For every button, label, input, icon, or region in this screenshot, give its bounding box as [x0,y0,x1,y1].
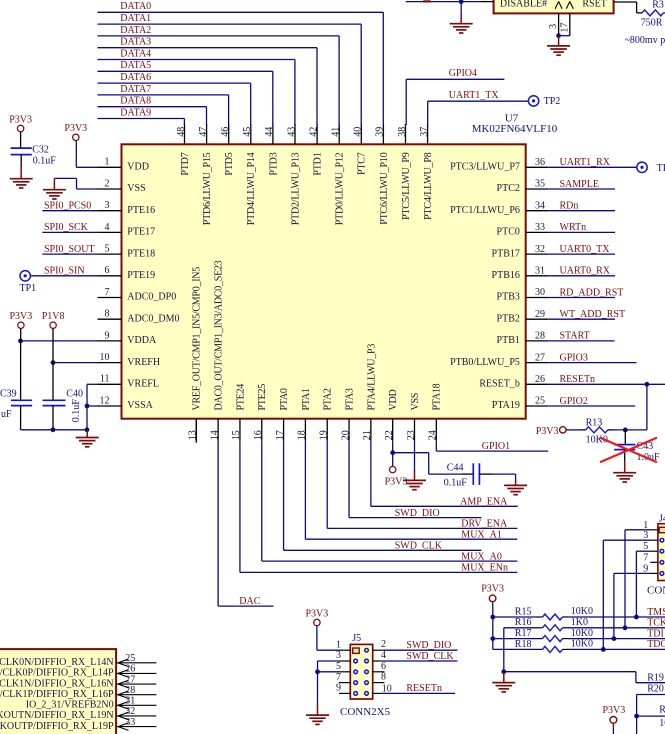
svg-text:43: 43 [286,127,297,137]
svg-text:VSS: VSS [410,393,421,411]
svg-text:GPIO1: GPIO1 [482,441,510,452]
svg-text:PTE24: PTE24 [235,384,246,411]
svg-text:DATA8: DATA8 [120,96,151,107]
svg-text:PTD3: PTD3 [268,152,279,175]
svg-text:9: 9 [105,330,110,341]
svg-text:MUX_A0: MUX_A0 [461,551,502,562]
svg-text:0.1uF: 0.1uF [71,399,82,423]
svg-text:AMP_ENA: AMP_ENA [460,497,508,508]
svg-text:PTA19: PTA19 [492,400,520,411]
svg-text:26: 26 [535,374,545,385]
svg-text:10K0: 10K0 [571,639,593,650]
svg-text:VDD: VDD [127,162,149,173]
svg-text:ADC0_DP0: ADC0_DP0 [127,292,176,303]
svg-text:7: 7 [105,287,110,298]
svg-text:P3V3: P3V3 [306,608,329,619]
svg-text:IO_2_31/VREFB2N0: IO_2_31/VREFB2N0 [26,700,114,711]
svg-text:TP3: TP3 [657,163,665,174]
svg-text:8: 8 [381,672,386,683]
svg-text:PTE19: PTE19 [127,270,155,281]
svg-text:31: 31 [125,696,135,707]
svg-text:SWD_CLK: SWD_CLK [406,651,454,662]
svg-text:PTA0: PTA0 [279,388,290,410]
svg-text:PTC7: PTC7 [357,152,368,175]
svg-text:R15: R15 [515,606,532,617]
svg-text:PTD6/LLWU_P15: PTD6/LLWU_P15 [202,152,213,225]
svg-text:/CLK0P/DIFFIO_RX_L14P: /CLK0P/DIFFIO_RX_L14P [0,668,114,679]
svg-text:0.1uF: 0.1uF [33,155,57,166]
svg-text:24: 24 [428,430,439,440]
svg-text:P3V3: P3V3 [9,114,32,125]
svg-text:PTC4/LLWU_P8: PTC4/LLWU_P8 [423,152,434,220]
svg-text:VREFL: VREFL [127,379,159,390]
svg-text:P3V3: P3V3 [64,123,87,134]
svg-text:PTD2/LLWU_P13: PTD2/LLWU_P13 [290,152,301,225]
svg-text:PTD5: PTD5 [224,152,235,175]
svg-text:UART1_RX: UART1_RX [560,157,611,168]
svg-text:2: 2 [381,639,386,650]
svg-text:28: 28 [535,331,545,342]
svg-text:uF: uF [1,409,12,420]
svg-text:33: 33 [535,222,545,233]
svg-text:11: 11 [100,374,110,385]
svg-text:PTE18: PTE18 [127,248,155,259]
svg-text:14: 14 [209,430,220,440]
svg-text:36: 36 [535,157,545,168]
svg-text:SPI0_SOUT: SPI0_SOUT [44,244,95,255]
svg-text:DATA1: DATA1 [120,13,151,24]
svg-text:1: 1 [105,157,110,168]
svg-text:/CLK1N/DIFFIO_RX_L16N: /CLK1N/DIFFIO_RX_L16N [0,678,114,689]
svg-text:PTB1: PTB1 [497,335,520,346]
svg-text:J5: J5 [352,633,361,644]
svg-text:CONN2X5: CONN2X5 [340,706,391,718]
svg-text:25: 25 [535,396,545,407]
svg-text:/CLK1P/DIFFIO_RX_L16P: /CLK1P/DIFFIO_RX_L16P [0,689,114,700]
svg-text:32: 32 [535,244,545,255]
svg-text:13: 13 [188,430,199,440]
svg-text:5: 5 [105,244,110,255]
svg-text:45: 45 [242,127,253,137]
svg-text:SPI0_PCS0: SPI0_PCS0 [44,201,91,212]
svg-text:16: 16 [253,430,264,440]
svg-text:WRTn: WRTn [560,222,587,233]
svg-text:4: 4 [381,650,386,661]
svg-text:PTA3: PTA3 [344,388,355,410]
svg-text:9: 9 [336,683,341,694]
svg-text:DATA4: DATA4 [120,48,151,59]
svg-text:UART0_RX: UART0_RX [560,266,611,277]
svg-text:RSET: RSET [582,0,606,9]
svg-text:TCK: TCK [647,618,665,629]
svg-text:1: 1 [336,639,341,650]
svg-text:C40: C40 [66,389,83,400]
svg-text:10K0: 10K0 [571,628,593,639]
svg-text:1K0: 1K0 [571,617,588,628]
svg-text:42: 42 [308,127,319,137]
svg-text:VDD: VDD [388,390,399,411]
svg-text:38: 38 [397,127,408,137]
svg-text:RESETn: RESETn [560,374,596,385]
svg-text:MK02FN64VLF10: MK02FN64VLF10 [472,123,558,135]
svg-text:27: 27 [535,352,545,363]
svg-text:PTC2: PTC2 [497,183,520,194]
svg-text:R3: R3 [652,0,664,10]
svg-text:TP2: TP2 [544,96,561,107]
svg-text:KOUTN/DIFFIO_RX_L19N: KOUTN/DIFFIO_RX_L19N [0,710,114,721]
svg-text:DATA9: DATA9 [120,107,151,118]
svg-text:R17: R17 [515,628,532,639]
svg-text:PTD0/LLWU_P12: PTD0/LLWU_P12 [335,152,346,225]
svg-text:10K0: 10K0 [571,606,593,617]
svg-text:34: 34 [535,200,545,211]
svg-text:UART1_TX: UART1_TX [449,90,500,101]
svg-text:46: 46 [220,127,231,137]
svg-text:R16: R16 [515,617,532,628]
svg-text:17: 17 [275,430,286,440]
svg-text:18: 18 [297,430,308,440]
svg-text:P3V3: P3V3 [385,476,408,487]
svg-text:PTB0/LLWU_P5: PTB0/LLWU_P5 [450,357,520,368]
svg-text:23: 23 [406,430,417,440]
svg-text:25: 25 [125,653,135,664]
svg-text:DAC0_OUT/CMP1_IN3/ADC0_SE23: DAC0_OUT/CMP1_IN3/ADC0_SE23 [214,260,225,410]
svg-text:PTD7: PTD7 [180,152,191,175]
svg-text:12: 12 [100,395,110,406]
svg-text:DATA0: DATA0 [120,1,151,12]
svg-text:PTA4/LLWU_P3: PTA4/LLWU_P3 [366,344,377,411]
svg-text:20: 20 [340,430,351,440]
svg-text:PTC0: PTC0 [497,227,520,238]
svg-text:32: 32 [125,706,135,717]
svg-text:17: 17 [560,23,571,33]
svg-text:44: 44 [264,127,275,137]
svg-text:7: 7 [336,672,341,683]
svg-text:~800mv pp: ~800mv pp [625,35,665,46]
svg-text:DRV_ENA: DRV_ENA [461,519,508,530]
svg-text:PTE16: PTE16 [127,205,155,216]
svg-text:0.1uF: 0.1uF [444,478,468,489]
svg-text:PTC3/LLWU_P7: PTC3/LLWU_P7 [450,162,520,173]
svg-text:41: 41 [331,127,342,137]
svg-text:P3V3: P3V3 [481,583,504,594]
svg-text:15: 15 [231,430,242,440]
svg-text:DATA3: DATA3 [120,37,151,48]
svg-text:22: 22 [384,430,395,440]
svg-text:R13: R13 [586,417,603,428]
svg-text:P3V3: P3V3 [603,705,626,716]
svg-text:SWD_DIO: SWD_DIO [406,640,451,651]
svg-text:PTD1: PTD1 [313,152,324,175]
svg-text:PTE25: PTE25 [257,384,268,411]
svg-text:MUX_A1: MUX_A1 [461,530,502,541]
svg-text:7: 7 [643,552,648,563]
svg-text:3: 3 [548,24,559,29]
svg-text:27: 27 [125,674,135,685]
svg-text:DATA2: DATA2 [120,25,151,36]
svg-text:6: 6 [381,661,386,672]
svg-text:TP1: TP1 [20,283,37,294]
svg-text:SWD_DIO: SWD_DIO [395,508,440,519]
svg-text:CONN2: CONN2 [647,584,665,596]
svg-text:PTB2: PTB2 [497,313,520,324]
svg-text:SPI0_SIN: SPI0_SIN [44,266,85,277]
svg-text:R19: R19 [647,673,664,684]
svg-text:35: 35 [535,179,545,190]
svg-text:31: 31 [535,266,545,277]
svg-text:ADC0_DM0: ADC0_DM0 [127,313,179,324]
svg-text:VSSA: VSSA [127,400,153,411]
svg-text:5: 5 [336,661,341,672]
svg-text:R20: R20 [647,683,664,694]
svg-text:C32: C32 [32,144,49,155]
svg-text:29: 29 [535,309,545,320]
svg-text:DISABLE#: DISABLE# [500,0,547,10]
svg-text:RDn: RDn [560,201,579,212]
svg-text:UART0_TX: UART0_TX [560,244,611,255]
svg-text:GPIO3: GPIO3 [560,352,588,363]
svg-text:MUX_ENn: MUX_ENn [461,563,508,574]
svg-text:8: 8 [105,309,110,320]
svg-text:DAC: DAC [239,596,260,607]
svg-text:GPIO4: GPIO4 [449,68,477,79]
svg-text:3: 3 [336,650,341,661]
svg-text:47: 47 [198,127,209,137]
svg-text:VREFH: VREFH [127,357,160,368]
svg-text:PTA2: PTA2 [323,388,334,410]
svg-text:R18: R18 [515,639,532,650]
svg-text:VREF_OUT/CMP1_IN5/CMP0_IN5: VREF_OUT/CMP1_IN5/CMP0_IN5 [192,267,203,411]
svg-text:PTB17: PTB17 [492,248,520,259]
svg-text:PTB3: PTB3 [497,292,520,303]
svg-text:GPIO2: GPIO2 [560,396,588,407]
svg-text:CLK0N/DIFFIO_RX_L14N: CLK0N/DIFFIO_RX_L14N [0,657,114,668]
svg-text:RESET_b: RESET_b [479,379,520,390]
svg-text:DATA6: DATA6 [120,72,151,83]
svg-text:PTC1/LLWU_P6: PTC1/LLWU_P6 [450,205,520,216]
svg-text:KOUTP/DIFFIO_RX_L19P: KOUTP/DIFFIO_RX_L19P [0,721,114,732]
svg-text:39: 39 [375,127,386,137]
svg-text:PTD4/LLWU_P14: PTD4/LLWU_P14 [246,152,257,225]
svg-text:P3V3: P3V3 [10,311,33,322]
svg-text:40: 40 [353,127,364,137]
svg-text:SPI0_SCK: SPI0_SCK [44,222,89,233]
svg-text:WT_ADD_RST: WT_ADD_RST [560,309,626,320]
svg-text:TDO: TDO [647,639,665,650]
svg-text:START: START [560,331,590,342]
svg-text:28: 28 [125,685,135,696]
svg-text:33: 33 [125,717,135,728]
svg-text:C44: C44 [447,463,464,474]
svg-text:26: 26 [125,664,135,675]
svg-text:3: 3 [105,200,110,211]
svg-text:TMS: TMS [647,607,665,618]
svg-text:PTC5/LLWU_P9: PTC5/LLWU_P9 [401,152,412,220]
svg-text:10K0: 10K0 [659,718,665,729]
svg-text:VSS: VSS [127,183,145,194]
svg-text:RESETn: RESETn [406,683,442,694]
svg-text:21: 21 [362,430,373,440]
svg-text:19: 19 [319,430,330,440]
svg-text:R2: R2 [659,704,665,715]
svg-text:10: 10 [100,352,110,363]
svg-text:30: 30 [535,287,545,298]
svg-text:VDDA: VDDA [127,335,157,346]
svg-text:TDI: TDI [647,628,664,639]
svg-text:RD_ADD_RST: RD_ADD_RST [560,287,624,298]
svg-text:2: 2 [105,178,110,189]
svg-text:750R: 750R [641,18,663,29]
svg-text:P3V3: P3V3 [536,426,559,437]
svg-text:SAMPLE: SAMPLE [560,179,599,190]
svg-text:6: 6 [105,265,110,276]
svg-text:PTA18: PTA18 [432,383,443,410]
svg-text:PTA1: PTA1 [301,388,312,410]
svg-text:DATA5: DATA5 [120,60,151,71]
svg-text:P1V8: P1V8 [42,311,65,322]
svg-text:SWD_CLK: SWD_CLK [395,541,443,552]
svg-text:PTB16: PTB16 [492,270,520,281]
svg-text:C39: C39 [0,388,17,399]
svg-text:37: 37 [419,127,430,137]
svg-text:48: 48 [176,127,187,137]
svg-text:J4: J4 [659,513,665,524]
svg-text:4: 4 [105,222,110,233]
svg-text:PTE17: PTE17 [127,227,155,238]
svg-text:PTC6/LLWU_P10: PTC6/LLWU_P10 [379,152,390,224]
svg-text:DATA7: DATA7 [120,84,151,95]
